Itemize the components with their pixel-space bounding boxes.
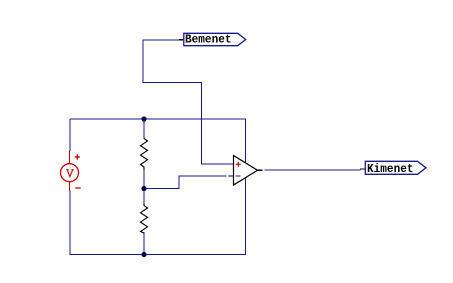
- op-amp U1: inverting input stub: [229, 175, 234, 177]
- op-amp U1: plus input mark: [236, 162, 241, 167]
- wire: between tap node and R2: [143, 189, 145, 205]
- svg-text:Bemenet: Bemenet: [185, 34, 232, 47]
- Kimenet net flag: outline: [365, 161, 426, 174]
- wire: left rail lower segment (below voltage source): [69, 191, 71, 256]
- voltage source V1: plus polarity mark: [75, 154, 80, 159]
- wire: bottom rail: [70, 254, 246, 256]
- node C (junction dot, bottom rail): [141, 252, 146, 257]
- wire: op-amp output to Kimenet flag: [265, 169, 361, 171]
- voltage source V1: circle body: [61, 164, 79, 182]
- Bemenet net flag: outline: [184, 33, 246, 45]
- wire: between R1 and tap node: [143, 170, 145, 189]
- Kimenet net flag: pin dash: [360, 168, 366, 170]
- wire: top rail from left corner to right corner: [70, 118, 246, 120]
- voltage source V1: red lead above: [69, 151, 71, 164]
- voltage source V1: red lead below: [69, 182, 71, 191]
- svg-text:Kimenet: Kimenet: [367, 163, 414, 176]
- wire: R2 bottom lead: [143, 232, 145, 255]
- wire: divider tap to op-amp - input: [144, 176, 227, 189]
- Kimenet net flag: label text: [367, 163, 414, 176]
- op-amp U1: minus input mark: [236, 175, 241, 177]
- Bemenet net flag: label text: [185, 34, 232, 47]
- voltage source V1: minus polarity mark: [75, 187, 80, 189]
- wire: left rail upper segment (above voltage source): [69, 119, 71, 151]
- node A (junction dot, top of divider): [141, 116, 146, 121]
- resistor R2 (lower divider resistor, zigzag): [141, 204, 148, 234]
- Bemenet net flag: pin dash: [179, 39, 184, 41]
- voltage source V1: V letter: [66, 170, 73, 177]
- op-amp U1 (buffer triangle, white fill hides right rail): [234, 156, 258, 186]
- op-amp U1: output stub: [258, 169, 263, 171]
- wire: Bemenet flag to node A (down-right-down to op-amp + input): [143, 40, 233, 164]
- wire: resistor column upper lead: [143, 119, 145, 139]
- node B (junction dot, divider tap): [141, 186, 146, 191]
- resistor R1 (upper divider resistor, zigzag): [141, 139, 148, 171]
- wire: right rail (passes behind op-amp): [245, 119, 247, 255]
